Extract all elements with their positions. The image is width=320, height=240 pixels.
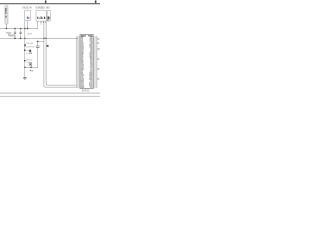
pin R5 xyxy=(93,44,95,47)
net label right y=79.0 xyxy=(97,78,99,79)
pin num L7 xyxy=(76,48,78,51)
pin R23 xyxy=(93,80,95,83)
pin L15 xyxy=(78,64,80,67)
pin name L9 xyxy=(81,52,84,53)
pin R26 xyxy=(93,86,95,89)
diode D1 xyxy=(29,63,32,66)
pin R24 xyxy=(93,82,95,85)
pin L21 xyxy=(78,76,80,79)
pin L23 xyxy=(78,80,80,83)
svg-text:470uF 16V: 470uF 16V xyxy=(26,46,35,48)
pin name L13 xyxy=(81,60,84,61)
wire left rail xyxy=(24,29,27,78)
pin num L15 xyxy=(76,64,78,67)
pin num R20 xyxy=(96,74,98,77)
pin name R10 xyxy=(90,54,93,55)
pin R18 xyxy=(93,70,95,73)
junction rail y60.7 xyxy=(24,60,26,62)
colored net label near gnd xyxy=(30,70,31,71)
pin num R2 xyxy=(96,38,98,41)
tick mark top right xyxy=(95,0,97,3)
pin name L11 xyxy=(81,56,84,57)
pin L17 xyxy=(78,68,80,71)
wire rail to C5 xyxy=(25,49,29,51)
pin name R26 xyxy=(90,86,93,87)
wire bus A +V xyxy=(0,27,38,30)
bottom frame line 2 xyxy=(0,95,100,98)
pin L24 xyxy=(78,82,80,85)
pin L20 xyxy=(78,74,80,77)
bottom frame line 1 xyxy=(0,92,100,95)
module U4 xyxy=(47,10,51,21)
pin num R10 xyxy=(96,54,98,57)
tick mark top center xyxy=(45,0,47,3)
wire U3 pin4 long run xyxy=(44,21,78,87)
pin name L25 xyxy=(81,84,84,85)
pin name R11 xyxy=(90,56,93,57)
pin name L12 xyxy=(81,58,83,59)
pin name R21 xyxy=(90,76,93,77)
pin R17 xyxy=(93,68,95,71)
pin R8 xyxy=(93,50,95,53)
pin name R4 xyxy=(90,42,92,43)
pin num L4 xyxy=(76,42,78,45)
module U2 xyxy=(25,10,31,20)
pin num L18 xyxy=(76,70,78,73)
wire stub y41.4 xyxy=(36,40,44,43)
pin num L14 xyxy=(76,62,78,65)
capacitor C2 xyxy=(19,29,21,39)
pin num L26 xyxy=(76,86,78,89)
pin num L16 xyxy=(76,66,78,69)
svg-text:VDR-05BLK: VDR-05BLK xyxy=(35,7,45,10)
pin L22 xyxy=(78,78,80,81)
pin name R24 xyxy=(89,82,93,83)
wire bus B xyxy=(0,37,78,40)
pin num R26 xyxy=(96,86,98,89)
IC U1 top edge text row xyxy=(81,35,86,36)
pin L10 xyxy=(78,54,80,57)
module U3 xyxy=(36,10,46,21)
connector J1 xyxy=(5,6,8,25)
wire J1 lead xyxy=(5,24,8,29)
pin num L20 xyxy=(76,74,78,77)
wire U3 pin5 long run xyxy=(46,21,78,85)
svg-text:ESP32: ESP32 xyxy=(82,91,90,93)
pin R16 xyxy=(93,66,95,69)
pin L8 xyxy=(78,50,80,53)
pin num R4 xyxy=(96,42,98,45)
pin tip color marks U3 xyxy=(40,22,43,23)
pin num R15 xyxy=(96,64,98,67)
pin R6 xyxy=(93,46,95,49)
pin name L7 xyxy=(81,48,84,49)
pin name L24 xyxy=(81,82,84,83)
pin name R7 xyxy=(90,48,92,49)
wire U3 pin2 stub xyxy=(40,21,43,25)
pin num L17 xyxy=(76,68,78,71)
pin name R17 xyxy=(90,68,92,69)
pin name L8 xyxy=(81,50,84,51)
IC U1 body xyxy=(80,34,93,88)
pin num L24 xyxy=(76,82,78,85)
junction bus B x=24.8 xyxy=(24,38,26,40)
pin num L23 xyxy=(76,80,78,83)
junction bus B x=46.1 xyxy=(45,38,47,40)
svg-text:PWR1: PWR1 xyxy=(8,35,16,38)
pin name R16 xyxy=(90,66,93,67)
pin name L26 xyxy=(81,86,85,87)
pin num L10 xyxy=(76,54,78,57)
pin R21 xyxy=(93,76,95,79)
pin R11 xyxy=(93,56,95,59)
pin num R5 xyxy=(96,44,98,47)
pin name R18 xyxy=(90,70,93,71)
junction x31.1 y67.3 xyxy=(30,67,32,69)
pin R2 xyxy=(93,38,95,41)
pin num L13 xyxy=(76,60,78,63)
pin num L19 xyxy=(76,72,78,75)
pin R20 xyxy=(93,74,95,77)
pin L14 xyxy=(78,62,80,65)
pin name L14 xyxy=(81,62,84,63)
pin name L22 xyxy=(81,78,84,79)
pin num L5 xyxy=(76,44,78,47)
component mark on rail xyxy=(24,44,26,46)
wire gnd run y67.3 xyxy=(25,66,38,69)
pin name R19 xyxy=(89,72,92,73)
svg-text:+3V3: +3V3 xyxy=(27,33,33,35)
pin R9 xyxy=(93,52,95,55)
capacitor C5 dark mark xyxy=(29,50,31,52)
pin L9 xyxy=(78,52,80,55)
pin num L6 xyxy=(76,46,78,49)
junction bus A x=27.6 xyxy=(27,28,29,30)
pin num R7 xyxy=(96,48,98,51)
pin num R17 xyxy=(96,68,98,71)
wire U2 pin1 xyxy=(24,21,27,29)
pin num R14 xyxy=(96,62,98,65)
pin num R12 xyxy=(96,58,98,61)
net label right y=59.0 xyxy=(97,58,99,59)
pin name L17 xyxy=(81,68,84,69)
pin num R21 xyxy=(96,76,98,79)
pin L7 xyxy=(78,48,80,51)
pin num R11 xyxy=(96,56,98,59)
pin name R3 xyxy=(90,40,93,41)
pin name R25 xyxy=(89,84,92,85)
pin name L16 xyxy=(81,66,84,67)
pin R4 xyxy=(93,42,95,45)
svg-text:S-8U2C-A4: S-8U2C-A4 xyxy=(22,7,32,10)
pin name L18 xyxy=(81,70,83,71)
pin L19 xyxy=(78,72,80,75)
pin name L1 xyxy=(81,36,84,37)
pin R19 xyxy=(93,72,95,75)
pin name L5 xyxy=(81,44,84,45)
pin R14 xyxy=(93,62,95,65)
pin L13 xyxy=(78,60,80,63)
junction bus A x=15.0 xyxy=(14,28,16,30)
net label right y=39.0 xyxy=(97,38,100,39)
pin num L2 xyxy=(76,38,78,41)
junction bus A x=20.6 xyxy=(20,28,22,30)
pin L3 xyxy=(78,40,80,43)
pin name L10 xyxy=(81,54,84,55)
pin num L1 xyxy=(76,36,78,39)
capacitor C1 xyxy=(14,29,16,39)
pin L1 xyxy=(78,36,80,39)
pin R7 xyxy=(93,48,95,51)
net label right y=43.0 xyxy=(97,42,99,43)
pin num R19 xyxy=(96,72,98,75)
pin num L11 xyxy=(76,56,78,59)
pin L6 xyxy=(78,46,80,49)
pin name R6 xyxy=(90,46,93,47)
ground symbol xyxy=(23,77,26,79)
junction rail y50.2 xyxy=(24,49,26,51)
pin name R9 xyxy=(90,52,93,53)
pin name L4 xyxy=(81,42,84,43)
pin R10 xyxy=(93,54,95,57)
pin name R2 xyxy=(90,38,93,39)
pin name R8 xyxy=(90,50,92,51)
junction bus A x=24.8 xyxy=(24,28,26,30)
wire U2 pin2 xyxy=(26,21,29,29)
pin name L6 xyxy=(81,46,84,47)
pin name L23 xyxy=(81,80,84,81)
pin num L12 xyxy=(76,58,78,61)
pin num R25 xyxy=(96,84,98,87)
pin name L21 xyxy=(81,76,84,77)
pin R12 xyxy=(93,58,95,61)
pin name L3 xyxy=(81,40,83,41)
label C6 near verticals xyxy=(47,45,49,47)
pin R3 xyxy=(93,40,95,43)
pin L4 xyxy=(78,42,80,45)
pin num R22 xyxy=(96,78,98,81)
pin num R9 xyxy=(96,52,98,55)
pin R25 xyxy=(93,84,95,87)
pin R1 xyxy=(93,36,95,39)
net label right y=49.0 xyxy=(97,48,100,49)
pin L2 xyxy=(78,38,80,41)
pin name R1 xyxy=(90,36,92,37)
pin L12 xyxy=(78,58,80,61)
pin name R14 xyxy=(90,62,93,63)
junction x37.7 y41.4 xyxy=(37,41,39,43)
svg-text:1R0-4Ω: 1R0-4Ω xyxy=(26,43,33,45)
capacitor C3 xyxy=(36,41,40,67)
svg-text:BK2: BK2 xyxy=(46,7,50,10)
pin R13 xyxy=(93,60,95,63)
pin name R15 xyxy=(90,64,92,65)
pin num R23 xyxy=(96,80,98,83)
pin num L9 xyxy=(76,52,78,55)
pin L5 xyxy=(78,44,80,47)
pin L25 xyxy=(78,84,80,87)
pin L18 xyxy=(78,70,80,73)
pin num R1 xyxy=(96,36,98,39)
junction bus A x=6.4 xyxy=(6,28,8,30)
svg-text:4u7: 4u7 xyxy=(26,53,29,55)
wire D1 lead xyxy=(30,66,33,68)
pin name R12 xyxy=(90,58,93,59)
pin name R23 xyxy=(90,80,92,81)
pin num L21 xyxy=(76,76,78,79)
pin name R5 xyxy=(89,44,92,45)
pin num R24 xyxy=(96,82,98,85)
pin num R18 xyxy=(96,70,98,73)
junction x24.8 y67.3 xyxy=(24,67,26,69)
pin R15 xyxy=(93,64,95,67)
pin name L19 xyxy=(81,72,83,73)
net label right y=69.0 xyxy=(97,68,100,69)
pin num L22 xyxy=(76,78,78,81)
pin num L8 xyxy=(76,50,78,53)
junction bus B x=15.0 xyxy=(14,38,16,40)
pin L16 xyxy=(78,66,80,69)
pin num R13 xyxy=(96,60,98,63)
pin L26 xyxy=(78,86,80,89)
pin name R13 xyxy=(90,60,93,61)
top border line xyxy=(0,3,100,4)
pin num R3 xyxy=(96,40,98,43)
colored label under C5 xyxy=(29,53,30,54)
pin name L2 xyxy=(81,38,83,39)
junction bus B x=43.9 xyxy=(43,38,45,40)
junction bus B x=20.6 xyxy=(20,38,22,40)
pin num R6 xyxy=(96,46,98,49)
pin name L15 xyxy=(81,64,84,65)
pin num L3 xyxy=(76,40,78,43)
pin L11 xyxy=(78,56,80,59)
pin name R22 xyxy=(89,78,93,79)
pin name L20 xyxy=(81,74,84,75)
pin num R16 xyxy=(96,66,98,69)
wire U3 pin1 drop xyxy=(36,21,39,29)
pin name R20 xyxy=(89,74,92,75)
pin R22 xyxy=(93,78,95,81)
pin num R8 xyxy=(96,50,98,53)
pin num L25 xyxy=(76,84,78,87)
